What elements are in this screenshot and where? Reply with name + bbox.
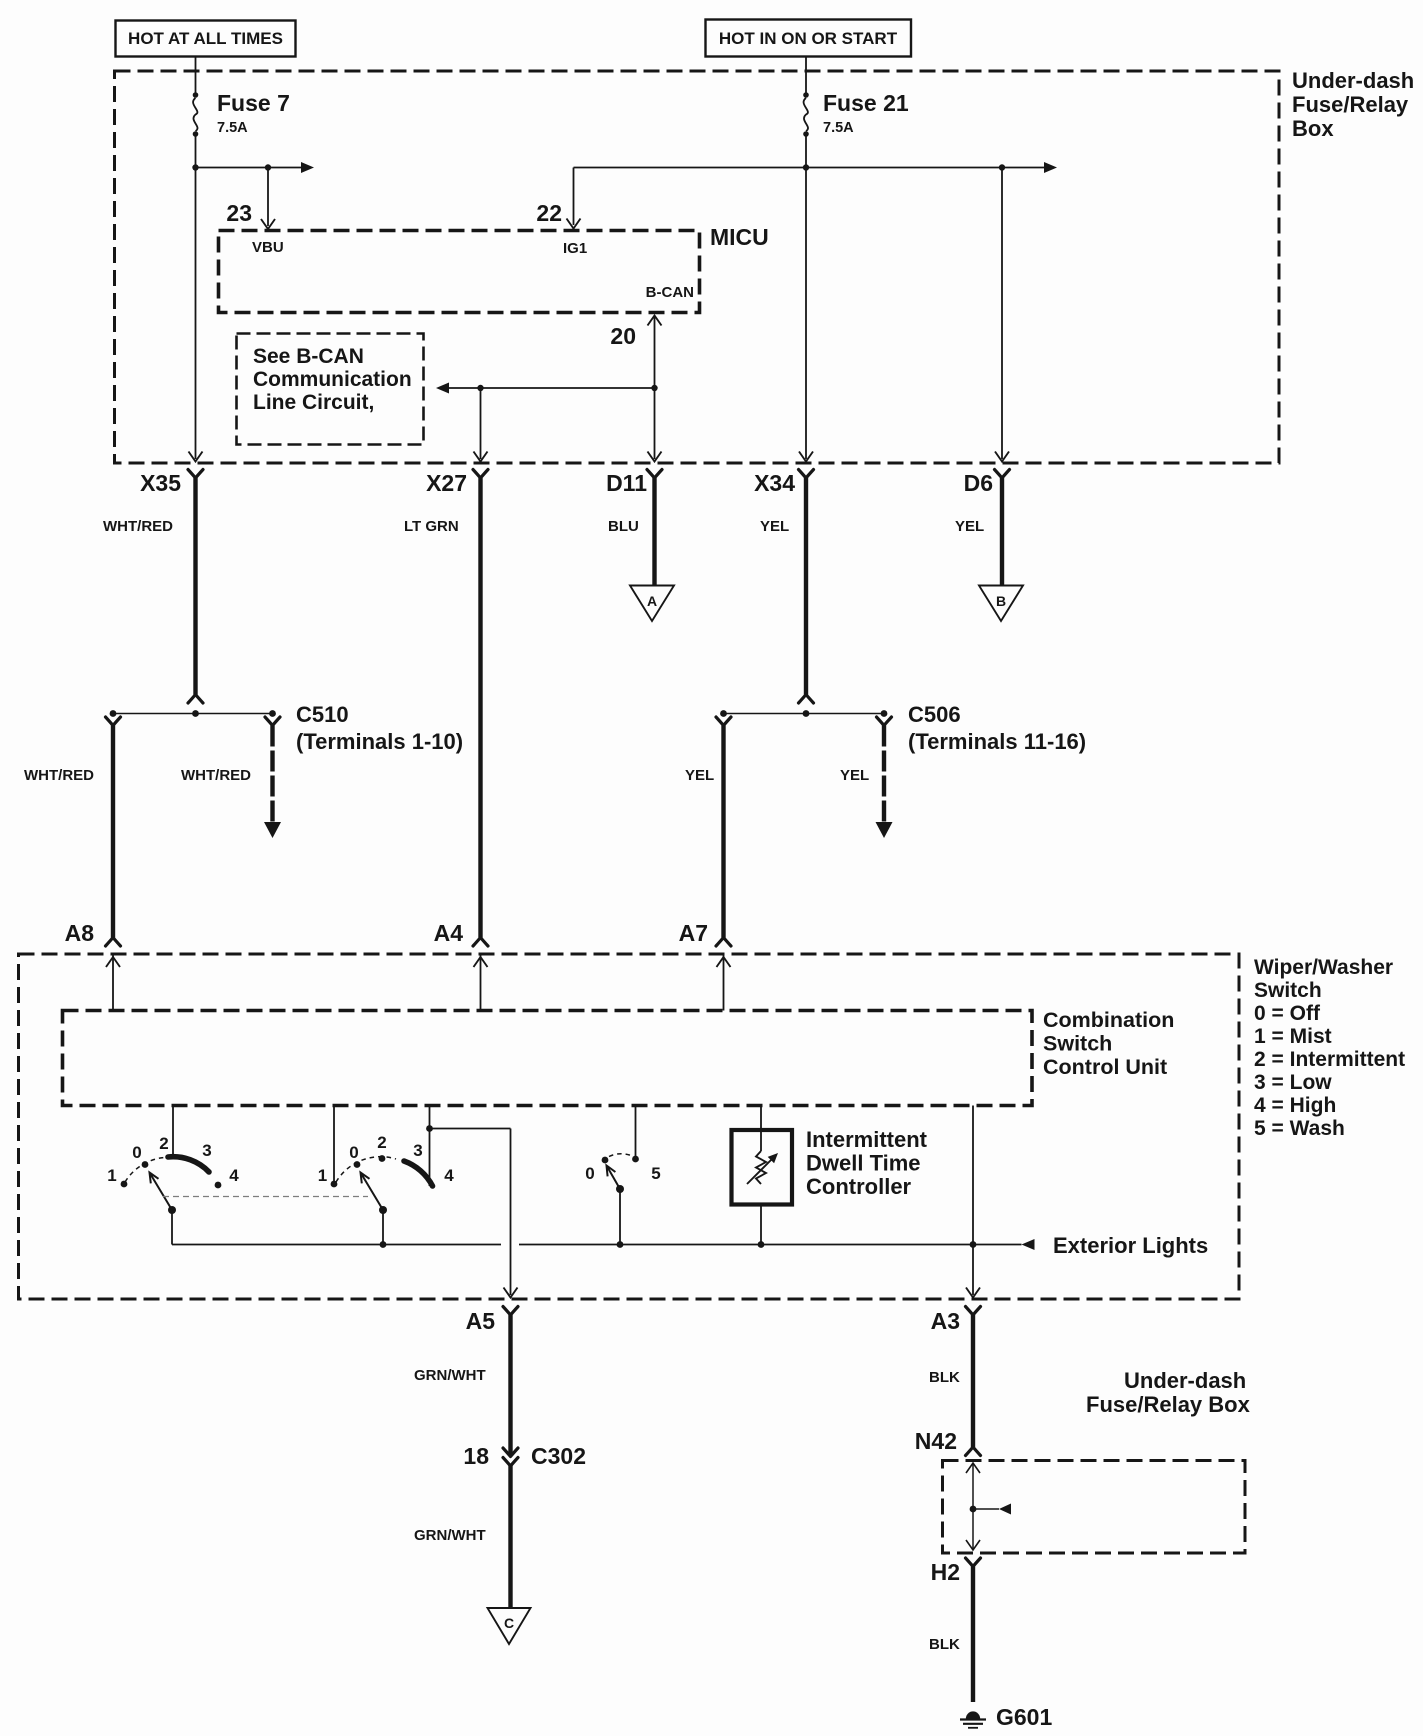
wire X35 feed down: [195, 168, 197, 460]
wire A7 into control unit: [723, 954, 725, 1011]
wire dwell controller to bus: [760, 1205, 762, 1245]
wire branch right with arrow: [196, 167, 302, 169]
svg-text:Wiper/Washer: Wiper/Washer: [1254, 956, 1393, 979]
wire S2 pivot to bus: [382, 1210, 384, 1245]
wire X27 feed down: [480, 388, 482, 459]
wire fuse 7 to junction: [195, 134, 197, 168]
wire LT GRN thick X27 to A4: [478, 478, 482, 938]
node bus dwell: [758, 1241, 765, 1248]
wire from HOT IN ON OR START to fuse 21: [805, 57, 807, 96]
wire ignition feed horizontal: [574, 167, 1045, 169]
S2 feed wire to position 4: [429, 1106, 431, 1187]
wire A8 into control unit: [112, 954, 114, 1011]
svg-text:GRN/WHT: GRN/WHT: [414, 1527, 486, 1544]
svg-text:Intermittent: Intermittent: [806, 1127, 928, 1152]
svg-text:VBU: VBU: [252, 239, 284, 256]
node C506 left: [720, 710, 727, 717]
connector terminal X27: [473, 470, 488, 479]
S2 contact arc (closed 3-4 segment): [404, 1161, 433, 1186]
svg-text:Controller: Controller: [806, 1174, 912, 1199]
S3 position dots: [602, 1157, 609, 1164]
connector terminal H2: [966, 1558, 981, 1567]
svg-text:Switch: Switch: [1043, 1032, 1112, 1056]
under-dash fuse/relay box (top): [115, 71, 1280, 463]
svg-text:Exterior Lights: Exterior Lights: [1053, 1233, 1208, 1258]
wire BLK thick A3: [971, 1315, 975, 1447]
svg-text:B: B: [996, 593, 1006, 609]
wire WHT/RED thick X35: [193, 478, 197, 695]
node S2/A5 junction: [426, 1125, 433, 1132]
svg-text:H2: H2: [931, 1559, 960, 1585]
off-page triangle A: [630, 586, 674, 622]
svg-text:7.5A: 7.5A: [823, 120, 854, 136]
svg-text:2: 2: [377, 1133, 386, 1152]
svg-text:X35: X35: [140, 470, 181, 496]
wire junction to A5: [430, 1128, 511, 1130]
node bus A3: [970, 1241, 977, 1248]
svg-text:1: 1: [318, 1166, 327, 1185]
off-page triangle C: [488, 1608, 531, 1644]
connector terminal N42: [966, 1447, 981, 1456]
S2 position dots: [354, 1161, 361, 1168]
wire S3 pivot to bus: [619, 1189, 621, 1245]
svg-text:3 = Low: 3 = Low: [1254, 1071, 1332, 1094]
svg-text:X27: X27: [426, 470, 467, 496]
svg-text:Communication: Communication: [253, 368, 412, 391]
S1 contact arc (closed 2-3 segment): [168, 1157, 209, 1172]
svg-text:5: 5: [651, 1164, 660, 1183]
node C506 mid: [803, 710, 810, 717]
wiper rotary switch S2 feed wire to position 1: [333, 1106, 335, 1182]
connector terminal C506 other terminals branch: [877, 717, 892, 726]
svg-text:YEL: YEL: [760, 518, 789, 535]
S1 pivot: [168, 1206, 176, 1214]
fuse F7: [193, 92, 199, 98]
wire down to MICU pin 23 VBU: [267, 168, 269, 227]
connector C510 terminal end of X35 wire: [188, 695, 203, 704]
fuse F21: [803, 92, 809, 98]
svg-text:7.5A: 7.5A: [217, 120, 248, 136]
wash switch S3 feed wire: [635, 1106, 637, 1157]
svg-text:Fuse/Relay Box: Fuse/Relay Box: [1086, 1392, 1251, 1417]
connector terminal D11: [647, 470, 662, 479]
connector terminal A5: [503, 1307, 518, 1316]
stub to other loads: [973, 1508, 999, 1510]
wire A5 inside box: [510, 1129, 512, 1296]
svg-text:2: 2: [159, 1134, 168, 1153]
wire BLK thick H2 to ground: [971, 1567, 975, 1703]
svg-text:BLK: BLK: [929, 1636, 960, 1653]
node X27 junction: [477, 385, 483, 391]
S1 position dots: [121, 1181, 128, 1188]
connector terminal C510 other terminals branch: [265, 717, 280, 726]
S2 dashed position arc: [336, 1157, 396, 1182]
wire B-CAN pin 20: [648, 316, 662, 326]
svg-text:Fuse 21: Fuse 21: [823, 90, 909, 116]
connector C302: [503, 1448, 518, 1457]
svg-text:23: 23: [226, 200, 252, 226]
power tag HOT IN ON OR START: [706, 20, 912, 57]
S2 pivot: [379, 1206, 387, 1214]
wire D6 feed down: [1001, 168, 1003, 460]
connector C506 terminal end of X34 wire: [799, 695, 814, 704]
svg-text:G601: G601: [996, 1704, 1052, 1730]
S2 wiper lever: [361, 1173, 384, 1211]
wire internal common bus: [172, 1244, 501, 1246]
arrow to Exterior Lights: [1022, 1239, 1035, 1250]
svg-text:Under-dash: Under-dash: [1124, 1368, 1246, 1393]
wire C506 bus: [724, 713, 885, 715]
svg-text:Line Circuit,: Line Circuit,: [253, 391, 374, 414]
svg-text:MICU: MICU: [710, 224, 769, 250]
svg-text:Under-dash: Under-dash: [1292, 68, 1414, 93]
connector terminal A4: [473, 938, 488, 947]
wire YEL thick D6: [1000, 478, 1004, 585]
wiper rotary switch S1 feed wire: [172, 1106, 174, 1157]
svg-text:WHT/RED: WHT/RED: [103, 518, 173, 535]
svg-text:0: 0: [585, 1164, 594, 1183]
svg-text:WHT/RED: WHT/RED: [24, 767, 94, 784]
svg-text:A: A: [647, 593, 657, 609]
wire YEL thick to A7: [721, 726, 725, 938]
wire YEL dashed continuation: [882, 726, 886, 823]
node ground link: [970, 1506, 977, 1513]
wire D11 feed down: [654, 388, 656, 459]
svg-text:A3: A3: [931, 1308, 960, 1334]
svg-text:YEL: YEL: [840, 767, 869, 784]
svg-text:BLU: BLU: [608, 518, 639, 535]
connector terminal A3: [966, 1307, 981, 1316]
wire S1 pivot to bus: [171, 1210, 173, 1245]
ground G601: [966, 1711, 980, 1719]
svg-text:B-CAN: B-CAN: [646, 284, 694, 301]
wire B-CAN horizontal with left arrow: [449, 387, 655, 389]
svg-text:LT GRN: LT GRN: [404, 518, 459, 535]
svg-text:X34: X34: [754, 470, 795, 496]
svg-text:YEL: YEL: [685, 767, 714, 784]
note box See B-CAN Communication Line Circuit: [237, 334, 424, 445]
node bus S3: [617, 1241, 624, 1248]
svg-text:GRN/WHT: GRN/WHT: [414, 1367, 486, 1384]
intermittent dwell time controller box: [732, 1130, 793, 1205]
svg-text:22: 22: [536, 200, 562, 226]
wire into MICU pin 22 IG1: [573, 168, 575, 226]
node C506 right: [881, 710, 888, 717]
wire control unit to dwell controller: [760, 1106, 762, 1152]
svg-text:Fuse/Relay: Fuse/Relay: [1292, 92, 1409, 117]
wire GRN/WHT thick to C: [508, 1464, 512, 1607]
svg-text:A5: A5: [466, 1308, 496, 1334]
wire BLU thick D11: [652, 478, 656, 585]
svg-text:C: C: [504, 1615, 514, 1631]
svg-text:Combination: Combination: [1043, 1008, 1174, 1032]
svg-text:Fuse 7: Fuse 7: [217, 90, 290, 116]
S1 wiper lever: [150, 1173, 173, 1211]
wire ground link inside box: [972, 1463, 974, 1550]
wiper/washer switch outer box: [19, 954, 1240, 1299]
S3 pivot: [616, 1185, 624, 1193]
combination switch control unit box: [63, 1011, 1033, 1106]
wire fuse 21 down to X34: [805, 134, 807, 459]
connector terminal C510 branch A8: [106, 717, 121, 726]
svg-text:HOT IN ON OR START: HOT IN ON OR START: [719, 29, 898, 48]
svg-text:18: 18: [463, 1443, 489, 1469]
wire WHT/RED thick to A8: [111, 726, 115, 938]
svg-text:2 = Intermittent: 2 = Intermittent: [1254, 1048, 1405, 1071]
node D6 junction: [999, 164, 1005, 170]
svg-text:Control Unit: Control Unit: [1043, 1055, 1167, 1079]
svg-text:0: 0: [132, 1143, 141, 1162]
wire C510 bus: [113, 713, 273, 715]
svg-text:4: 4: [229, 1166, 239, 1185]
svg-text:0 = Off: 0 = Off: [1254, 1002, 1321, 1025]
wire from HOT AT ALL TIMES to fuse 7: [195, 57, 197, 96]
svg-text:Box: Box: [1292, 116, 1334, 141]
node junction fuse7 output: [192, 164, 198, 170]
wire YEL thick X34: [804, 478, 808, 695]
node bus S2: [380, 1241, 387, 1248]
svg-text:A4: A4: [434, 920, 464, 946]
svg-text:D11: D11: [606, 470, 647, 496]
svg-text:3: 3: [202, 1141, 211, 1160]
svg-text:Switch: Switch: [1254, 979, 1322, 1002]
node C510 right: [269, 710, 276, 717]
svg-text:WHT/RED: WHT/RED: [181, 767, 251, 784]
connector terminal D6: [995, 470, 1010, 479]
svg-text:D6: D6: [964, 470, 993, 496]
connector terminal X35: [188, 470, 203, 479]
svg-text:See B-CAN: See B-CAN: [253, 345, 364, 368]
svg-text:C510: C510: [296, 702, 349, 727]
svg-text:4 = High: 4 = High: [1254, 1094, 1336, 1117]
svg-text:4: 4: [444, 1166, 454, 1185]
svg-text:C506: C506: [908, 702, 961, 727]
wire A3 inside box: [972, 1106, 974, 1296]
off-page triangle B: [979, 586, 1023, 622]
svg-text:1 = Mist: 1 = Mist: [1254, 1025, 1332, 1048]
S1 dashed position arc: [125, 1158, 164, 1183]
svg-text:(Terminals 11-16): (Terminals 11-16): [908, 729, 1086, 754]
connector terminal A8: [106, 938, 121, 947]
svg-text:BLK: BLK: [929, 1369, 960, 1386]
S3 dashed position arc: [609, 1154, 631, 1157]
node C510 mid: [192, 710, 199, 717]
svg-text:20: 20: [610, 323, 636, 349]
svg-text:HOT AT ALL TIMES: HOT AT ALL TIMES: [128, 29, 283, 48]
node fuse21 junction: [803, 164, 809, 170]
MICU control unit box: [219, 231, 700, 313]
node branch to VBU: [265, 164, 271, 170]
svg-text:0: 0: [349, 1143, 358, 1162]
under-dash fuse/relay box (bottom): [943, 1461, 1246, 1554]
mechanical link dashed: [163, 1196, 368, 1198]
node B-CAN junction: [651, 385, 657, 391]
svg-text:3: 3: [413, 1141, 422, 1160]
S3 wiper lever: [607, 1166, 621, 1190]
svg-text:IG1: IG1: [563, 240, 587, 257]
svg-text:5 = Wash: 5 = Wash: [1254, 1117, 1345, 1140]
svg-text:C302: C302: [531, 1443, 586, 1469]
svg-text:A8: A8: [65, 920, 95, 946]
svg-text:1: 1: [107, 1166, 116, 1185]
power tag HOT AT ALL TIMES: [116, 21, 296, 57]
svg-text:Dwell Time: Dwell Time: [806, 1151, 921, 1176]
svg-text:A7: A7: [679, 920, 708, 946]
connector terminal X34: [799, 470, 814, 479]
wire A4 into control unit: [480, 954, 482, 1011]
wire WHT/RED dashed continuation: [270, 726, 274, 823]
connector terminal A7: [716, 938, 731, 947]
node C510 left: [110, 710, 117, 717]
svg-text:(Terminals 1-10): (Terminals 1-10): [296, 729, 463, 754]
connector terminal C506 branch A7: [716, 717, 731, 726]
svg-text:YEL: YEL: [955, 518, 984, 535]
wire GRN/WHT thick A5: [508, 1315, 512, 1455]
svg-text:N42: N42: [915, 1428, 957, 1454]
variable resistor symbol: [756, 1151, 766, 1184]
